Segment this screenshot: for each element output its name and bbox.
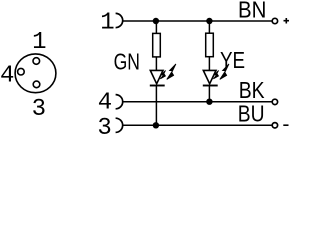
LED D1 (GN) triangle xyxy=(150,70,163,83)
plus sign xyxy=(284,18,290,24)
svg-text:4: 4 xyxy=(0,63,14,90)
wire pin 4 (BK) xyxy=(122,101,271,103)
node junction pin1/YE xyxy=(206,18,212,24)
wire pin 1 (BN) xyxy=(122,20,271,22)
pin 4 contact arc xyxy=(116,95,123,109)
svg-text:1: 1 xyxy=(32,29,46,56)
terminal BK circle xyxy=(272,99,277,104)
LED D1 cathode bar xyxy=(150,85,165,87)
svg-text:3: 3 xyxy=(32,96,46,123)
connector pin 3 hole xyxy=(33,81,40,88)
connector pin 1 hole xyxy=(33,58,40,65)
LED D1 light arrows xyxy=(160,64,176,80)
terminal BN circle xyxy=(272,18,277,23)
pin 1 contact arc xyxy=(116,13,123,27)
resistor R1 (GN) xyxy=(153,33,161,57)
minus sign xyxy=(283,124,288,126)
node junction pin4/YE xyxy=(206,99,212,105)
svg-text:GN: GN xyxy=(114,48,140,74)
wire YE branch top xyxy=(208,21,210,34)
svg-text:BU: BU xyxy=(238,101,265,127)
terminal BU circle xyxy=(272,123,277,128)
wire resistor to LED GN xyxy=(155,57,157,71)
pin 3 contact arc xyxy=(116,118,123,132)
node junction pin3/GN xyxy=(153,122,159,128)
wire GN LED to pin3 line (crosses pin4) xyxy=(155,86,157,126)
connector body circle xyxy=(15,54,56,93)
svg-text:BN: BN xyxy=(238,0,266,23)
svg-text:4: 4 xyxy=(98,89,112,116)
resistor R2 (YE) xyxy=(206,33,214,57)
svg-text:1: 1 xyxy=(100,9,114,36)
wire GN branch top xyxy=(155,21,157,34)
LED D2 light arrows xyxy=(213,64,229,80)
LED D2 cathode bar xyxy=(203,85,218,87)
svg-text:BK: BK xyxy=(239,77,265,103)
svg-text:3: 3 xyxy=(97,115,111,137)
wire YE LED to pin4 line xyxy=(208,86,210,102)
connector pin 4 hole xyxy=(18,68,25,75)
wire resistor to LED YE xyxy=(208,57,210,71)
LED D2 (YE) triangle xyxy=(203,70,216,83)
wire pin 3 (BU) xyxy=(122,124,271,126)
node junction pin1/GN xyxy=(153,18,159,24)
